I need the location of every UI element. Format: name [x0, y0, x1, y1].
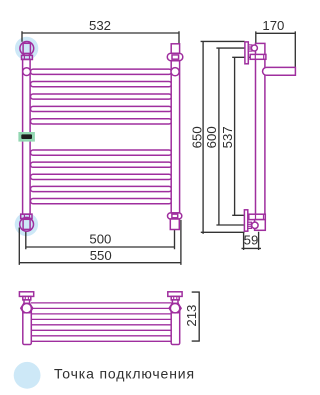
- bottom view: right collector: [171, 306, 180, 345]
- legend: connection point symbol: [14, 362, 41, 389]
- bottom view: right fitting: [168, 292, 182, 313]
- side view: bottom bracket stem: [248, 222, 252, 228]
- svg-text:537: 537: [220, 126, 235, 148]
- connection point highlight top-left: [15, 37, 38, 60]
- dimension 500: [26, 220, 175, 249]
- bottom view: left collector: [23, 306, 32, 345]
- side view: collector tube: [256, 43, 265, 214]
- side view: top union nut: [250, 54, 266, 59]
- svg-text:Точка подключения: Точка подключения: [54, 366, 195, 382]
- bottom-left union fitting: [20, 214, 34, 231]
- bottom-right nut fitting: [168, 213, 182, 230]
- svg-text:213: 213: [184, 305, 199, 327]
- side view: bottom wall plate: [244, 210, 247, 231]
- side view: bottom valve body: [255, 220, 266, 231]
- svg-text:500: 500: [89, 231, 111, 246]
- svg-text:59: 59: [244, 232, 259, 247]
- junction circle left: [23, 68, 31, 76]
- side view: shelf bar: [263, 67, 296, 75]
- top-left union fitting: [20, 42, 34, 60]
- dimension 170: [256, 31, 296, 67]
- bottom view: left fitting: [19, 292, 33, 313]
- junction circle right: [171, 68, 179, 76]
- side view: top wall plate: [245, 42, 248, 64]
- top-right nut fitting: [167, 53, 183, 61]
- dimension 550: [19, 220, 181, 265]
- side view: bottom bracket knob: [252, 222, 258, 228]
- svg-text:170: 170: [262, 18, 284, 33]
- front view: rungs: [31, 69, 172, 204]
- dimension 532: [22, 31, 180, 43]
- front view: left collector tube: [23, 59, 31, 214]
- svg-text:532: 532: [89, 18, 111, 33]
- connection point highlight bottom-left: [15, 213, 38, 236]
- bottom view: shelf tube lines: [31, 303, 172, 341]
- dimension 59: [242, 232, 262, 250]
- dimension 600: [216, 48, 246, 226]
- side view: bottom union nut: [249, 214, 265, 219]
- svg-text:600: 600: [204, 126, 219, 148]
- dimension 537: [232, 57, 250, 216]
- dimension 650: [201, 41, 245, 234]
- side view: top bracket stem: [248, 45, 252, 51]
- svg-text:650: 650: [190, 126, 205, 148]
- dimension 213: [192, 292, 200, 341]
- front view: right collector tube: [171, 44, 179, 213]
- side view: top bracket knob: [251, 45, 257, 51]
- heating element (green): [18, 132, 35, 142]
- svg-text:550: 550: [90, 248, 112, 263]
